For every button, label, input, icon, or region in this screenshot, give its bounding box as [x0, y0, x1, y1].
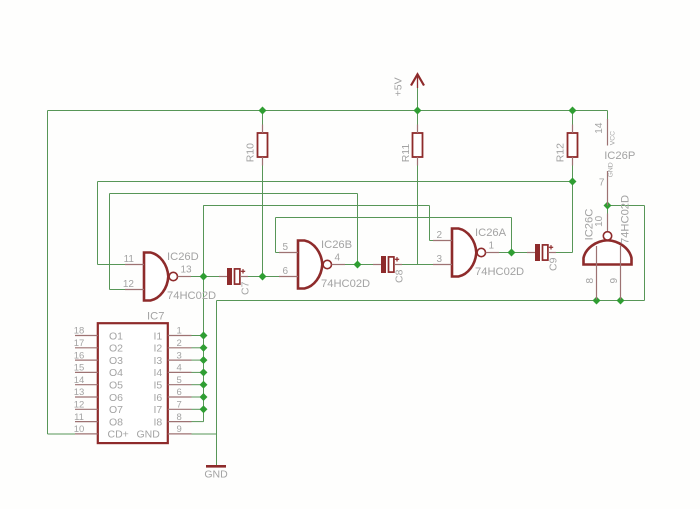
- svg-text:13: 13: [181, 265, 193, 276]
- wire vertical x=357.5 from Y2 down to IC26B output junction: [357, 194, 359, 265]
- capacitor C8 polarized: [381, 256, 386, 273]
- pin 7 of IC7 (right): [168, 408, 192, 410]
- inversion bubble of IC26D: [169, 272, 177, 280]
- node junction C7 right / R10 bottom / IC26B pin 6: [259, 273, 267, 281]
- svg-text:IC26C: IC26C: [584, 209, 596, 241]
- inversion bubble of IC26B: [323, 260, 331, 268]
- svg-text:10: 10: [74, 424, 85, 435]
- wire vertical x=572 R12 top lead from top rail to resistor body: [572, 111, 574, 134]
- ground symbol: [206, 465, 226, 468]
- bottom lead of R10: [262, 157, 264, 166]
- wire IC26C output pin 10 upper green segment x=607.8: [607, 206, 609, 214]
- svg-text:+5V: +5V: [393, 77, 405, 96]
- svg-text:GND: GND: [607, 162, 614, 177]
- power pin 7 GND of IC26P: [607, 171, 609, 206]
- svg-text:C7: C7: [240, 281, 252, 295]
- svg-text:C8: C8: [394, 269, 406, 283]
- node junction IC26B output / Y2 / C8: [354, 261, 362, 269]
- wire vertical x=216 from y=300 down to GND symbol: [216, 301, 218, 466]
- svg-text:GND: GND: [204, 469, 228, 481]
- wire IC7 input pin 5 stub to bus x=203.5: [192, 384, 204, 386]
- wire IC7 input pin 1 stub to bus x=203.5: [192, 335, 204, 337]
- svg-text:O8: O8: [109, 416, 123, 428]
- wire horizontal pin-2 row y=240 from x=429.1 to x=433: [430, 240, 435, 242]
- svg-text:3: 3: [177, 350, 182, 361]
- wire net Y3 horizontal y=205.3 from x=203.5 to x=429.1: [204, 205, 430, 207]
- wire IC7 input pin 4 stub to bus x=203.5: [192, 371, 204, 373]
- svg-text:18: 18: [74, 326, 85, 337]
- pin 18 of IC7 (left): [75, 335, 98, 337]
- left lead of C8: [373, 264, 381, 266]
- svg-text:15: 15: [74, 363, 85, 374]
- wire horizontal y=252.5 from C9 right plate to corner x=572: [555, 252, 573, 254]
- wire vertical x=203.5 from Y3 down through IC26D output junction to IC7 pin 8 row: [203, 205, 205, 421]
- wire vertical x=572 from Y1 junction down to C9 right row y=252.5: [572, 182, 574, 253]
- inversion bubble of IC26C: [603, 232, 611, 240]
- pin 12 of IC7 (left): [75, 408, 98, 410]
- svg-text:5: 5: [177, 375, 182, 386]
- wire IC7 pin 10 row y=434 from outer-left vertical to box: [48, 433, 76, 435]
- svg-text:2: 2: [436, 230, 442, 241]
- pin 11 of IC7 (left): [75, 421, 98, 423]
- svg-text:O5: O5: [109, 380, 123, 392]
- wire vertical x=109 from Y2 down to IC26D pin 12 row: [109, 194, 111, 290]
- svg-text:12: 12: [123, 279, 135, 290]
- pin 10 of IC7 (left): [75, 433, 98, 435]
- wire C7 right side y=276.5 from plate to junction x=262 and on to IC26B pin 6: [240, 276, 280, 278]
- node junction IC7 pin 3 / bus: [200, 356, 208, 364]
- inversion bubble of IC26A: [477, 248, 485, 256]
- svg-text:R11: R11: [400, 144, 412, 163]
- svg-text:5: 5: [282, 242, 288, 253]
- svg-text:VCC: VCC: [609, 131, 616, 145]
- node junction IC26P pin 7 / IC26C pin 10 / GND link: [604, 202, 612, 210]
- wire IC7 input pin 3 stub to bus x=203.5: [192, 359, 204, 361]
- wire vertical x=417.5 R11 top lead from top rail to resistor body: [417, 111, 419, 134]
- svg-text:IC7: IC7: [147, 311, 164, 323]
- wire IC7 input pin 6 stub to bus x=203.5: [192, 396, 204, 398]
- node junction IC26C pin 9 / input rail: [617, 297, 625, 305]
- wire vertical x=644.3 from y=205.2 down to IC26C input rail y=300: [644, 206, 646, 301]
- wire vertical x=262 R10 bottom lead from resistor body down to C7/pin-6 junction: [262, 157, 264, 277]
- node junction IC7 pin 5 / bus: [200, 381, 208, 389]
- svg-text:2: 2: [177, 338, 182, 349]
- wire net Y2 horizontal y=193.5 from x=109 to x=357.5: [110, 193, 358, 195]
- node junction IC26A output / Y4 / C9: [508, 249, 516, 257]
- pin 5 of IC7 (right): [168, 384, 192, 386]
- svg-text:4: 4: [335, 253, 341, 264]
- input pin 9 of IC26C: [620, 246, 622, 300]
- pin 6 of IC7 (right): [168, 396, 192, 398]
- input pin 2 of IC26A: [433, 240, 452, 242]
- right lead of C8: [394, 264, 402, 266]
- node junction top rail / R10: [259, 107, 267, 115]
- svg-text:O4: O4: [109, 367, 123, 379]
- wire horizontal pin-5 row y=252 from x=275 to x=279: [276, 252, 281, 254]
- svg-text:1: 1: [489, 241, 495, 252]
- left lead of C9: [527, 252, 535, 254]
- capacitor C7 polarized: [227, 268, 232, 285]
- pin 3 of IC7 (right): [168, 359, 192, 361]
- output pin 13 of IC26D: [178, 276, 192, 278]
- node junction IC26D output / C7 / IC7 bus: [200, 273, 208, 281]
- node junction IC7 pin 6 / bus: [200, 393, 208, 401]
- wire top power rail y=110.5 from x=47.9 to x=607.8: [48, 110, 608, 112]
- wire net Y4 horizontal y=217 from x=275 to x=511.5: [276, 217, 512, 219]
- wire IC26D output row y=276.5 from bubble to C7 left plate: [191, 276, 227, 278]
- svg-text:IC26A: IC26A: [475, 227, 507, 239]
- svg-text:O3: O3: [109, 355, 123, 367]
- node junction Y1 / R12 bottom: [569, 178, 577, 186]
- svg-text:I1: I1: [154, 330, 163, 342]
- op-amp-style NOR gate body IC26D: [144, 253, 168, 301]
- pin 8 of IC7 (right): [168, 421, 192, 423]
- svg-text:I7: I7: [154, 404, 163, 416]
- svg-text:74HC02D: 74HC02D: [167, 290, 216, 302]
- svg-text:11: 11: [74, 412, 84, 423]
- pin 4 of IC7 (right): [168, 371, 192, 373]
- svg-text:1: 1: [177, 326, 182, 337]
- IC U7 box IC7: [98, 323, 168, 443]
- svg-text:CD+: CD+: [108, 429, 129, 441]
- input pin 3 of IC26A: [433, 264, 452, 266]
- wire vertical x=417.5 R11 bottom lead down to C8/pin-3 net y=264.5: [417, 157, 419, 265]
- resistor R10: [258, 133, 268, 157]
- op-amp-style NOR gate body IC26C (rotated up): [584, 240, 632, 264]
- node junction top rail / +5V / R11: [414, 107, 422, 115]
- power pin 14 VCC of IC26P: [607, 119, 609, 146]
- pin 14 of IC7 (left): [75, 384, 98, 386]
- svg-text:13: 13: [74, 387, 85, 398]
- wire vertical x=607.8 top rail corner down to IC26P pin 14: [607, 111, 609, 120]
- wire vertical x=511.5 from Y4 down to IC26A output junction: [511, 218, 513, 253]
- pin 9 of IC7 (right): [168, 433, 192, 435]
- supply +5V arrow symbol: [411, 74, 424, 85]
- input pin 8 of IC26C: [596, 246, 598, 300]
- input pin 11 of IC26D: [125, 264, 144, 266]
- bottom lead of R12: [572, 157, 574, 166]
- wire vertical x=97 from Y1 down to IC7 gate IC26D pin 11 row: [97, 182, 99, 265]
- pin 2 of IC7 (right): [168, 347, 192, 349]
- wire vertical x=572 R12 bottom lead down to Y1 junction: [572, 157, 574, 182]
- svg-text:IC26D: IC26D: [167, 251, 199, 263]
- node junction IC7 pin 4 / bus: [200, 368, 208, 376]
- svg-text:7: 7: [599, 178, 605, 189]
- svg-text:16: 16: [74, 350, 85, 361]
- svg-text:GND: GND: [137, 429, 161, 441]
- svg-text:74HC02D: 74HC02D: [321, 278, 370, 290]
- svg-text:6: 6: [282, 266, 288, 277]
- svg-text:I6: I6: [154, 392, 163, 404]
- svg-text:R10: R10: [245, 143, 257, 162]
- svg-text:11: 11: [124, 254, 135, 265]
- svg-text:O2: O2: [109, 343, 123, 355]
- svg-text:9: 9: [177, 424, 182, 435]
- node junction IC7 pin 2 / bus: [200, 344, 208, 352]
- output pin 1 of IC26A: [486, 252, 500, 254]
- svg-text:C9: C9: [548, 257, 560, 271]
- pin 16 of IC7 (left): [75, 359, 98, 361]
- wire vertical x=429.1 from Y3 down to IC26A pin 2 row: [429, 206, 431, 241]
- top lead of R12: [572, 125, 574, 134]
- output pin 10 of IC26C: [607, 214, 609, 232]
- top lead of R11: [417, 125, 419, 134]
- svg-text:74HC02D: 74HC02D: [620, 195, 632, 244]
- pin 17 of IC7 (left): [75, 347, 98, 349]
- wire net Y1 horizontal y=181.5 from x=97 to R12 junction x=572: [98, 181, 573, 183]
- bottom lead of R11: [417, 157, 419, 166]
- input pin 6 of IC26B: [279, 276, 298, 278]
- node junction IC7 pin 1 / bus: [200, 332, 208, 340]
- wire vertical x=417.5 from +5V arrow down to top rail: [417, 88, 419, 111]
- wire C8 right side y=264.5 from plate to IC26A pin 3: [394, 264, 434, 266]
- svg-text:R12: R12: [555, 143, 567, 162]
- svg-text:4: 4: [177, 363, 182, 374]
- resistor R12: [568, 133, 578, 157]
- svg-text:I5: I5: [154, 380, 163, 392]
- svg-text:3: 3: [436, 254, 442, 265]
- wire IC26A output row y=252.5 from bubble to junction x=511.5 and on to C9 left plate: [498, 252, 535, 254]
- pin 1 of IC7 (right): [168, 335, 192, 337]
- wire vertical x=275 from Y4 down to IC26B pin 5 row: [275, 218, 277, 253]
- wire horizontal pin-12 row y=289 from x=109 to x=125: [110, 289, 126, 291]
- resistor R11: [413, 133, 423, 157]
- polarity plus sign of C8: [395, 258, 399, 260]
- svg-text:I3: I3: [154, 355, 163, 367]
- svg-text:I8: I8: [154, 416, 163, 428]
- wire vertical x=262 R10 top lead from top rail to resistor body: [262, 111, 264, 134]
- pin 15 of IC7 (left): [75, 371, 98, 373]
- svg-text:17: 17: [74, 338, 85, 349]
- svg-text:IC26P: IC26P: [604, 150, 635, 162]
- svg-text:I2: I2: [154, 343, 163, 355]
- wire horizontal pin-11 row y=264 from x=97 to x=125: [98, 264, 126, 266]
- output pin 4 of IC26B: [332, 264, 346, 266]
- capacitor C9 polarized: [535, 244, 540, 261]
- polarity plus sign of C7: [241, 270, 245, 272]
- right lead of C9: [548, 252, 556, 254]
- svg-text:14: 14: [74, 375, 85, 386]
- wire IC26B output row y=264.5 from bubble to junction x=357.5 and on to C8 left plate: [345, 264, 381, 266]
- svg-text:9: 9: [609, 278, 620, 284]
- svg-text:7: 7: [177, 400, 182, 411]
- wire IC7 input pin 8 stub to bus x=203.5: [192, 421, 204, 423]
- svg-text:10: 10: [594, 215, 605, 227]
- polarity plus sign of C9: [549, 246, 553, 248]
- pin 13 of IC7 (left): [75, 396, 98, 398]
- left lead of C7: [219, 276, 227, 278]
- op-amp-style NOR gate body IC26A: [452, 229, 476, 277]
- svg-text:IC26B: IC26B: [321, 239, 352, 251]
- wire IC26C input rail horizontal y=300 from x=216 to x=644.3: [217, 300, 645, 302]
- top lead of R10: [262, 125, 264, 134]
- op-amp-style NOR gate body IC26B: [298, 241, 322, 289]
- wire IC7 input pin 2 stub to bus x=203.5: [192, 347, 204, 349]
- svg-text:74HC02D: 74HC02D: [475, 266, 524, 278]
- svg-text:8: 8: [585, 278, 596, 284]
- svg-text:O7: O7: [109, 404, 123, 416]
- node junction top rail / R12: [569, 107, 577, 115]
- node junction IC26C pin 8 / input rail: [593, 297, 601, 305]
- node junction IC7 pin 7 / bus: [200, 405, 208, 413]
- wire IC7 pin 9 row y=434 from box to GND vertical x=216: [192, 433, 217, 435]
- svg-text:I4: I4: [154, 367, 163, 379]
- wire net GND-link horizontal y=205.2 from IC26P pin 7 junction to x=644.3: [608, 205, 645, 207]
- svg-text:6: 6: [177, 387, 182, 398]
- svg-text:14: 14: [594, 122, 605, 134]
- svg-text:8: 8: [177, 412, 182, 423]
- svg-text:12: 12: [74, 400, 85, 411]
- wire outer-left vertical x=47.9 from top rail down to IC7 pin 10 row: [47, 111, 49, 435]
- right lead of C7: [240, 276, 248, 278]
- svg-text:O6: O6: [109, 392, 123, 404]
- input pin 12 of IC26D: [125, 289, 144, 291]
- input pin 5 of IC26B: [279, 252, 298, 254]
- svg-text:O1: O1: [109, 330, 123, 342]
- wire IC7 input pin 7 stub to bus x=203.5: [192, 408, 204, 410]
